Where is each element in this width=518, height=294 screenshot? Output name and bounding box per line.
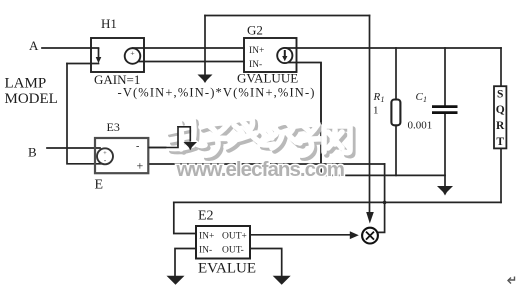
svg-text:T: T <box>496 136 504 148</box>
ground triangle at E2 OUT- <box>273 276 291 285</box>
svg-text:IN-: IN- <box>199 246 212 256</box>
wire thermal bottom line <box>321 174 445 176</box>
wire H1 sense out to left column <box>67 63 99 65</box>
wire B to E3 <box>47 147 100 149</box>
wire G2 out- to thermal node <box>285 63 321 176</box>
wire E2 OUT+ to multiplier <box>250 234 350 236</box>
wire left column down to E3 minus pin <box>67 64 101 164</box>
capacitor C1 <box>432 105 458 108</box>
svg-text:+: + <box>137 159 144 173</box>
op block H1 <box>91 38 144 72</box>
svg-text:LAMP: LAMP <box>5 76 47 92</box>
wire R1 top lead <box>395 48 397 100</box>
wire ground stub at x205 <box>204 16 206 75</box>
svg-text:B: B <box>28 145 37 160</box>
svg-text:E3: E3 <box>107 120 120 134</box>
op block G2 <box>244 38 297 72</box>
svg-text:E: E <box>95 178 104 193</box>
svg-text:IN-: IN- <box>249 60 262 70</box>
svg-text:-: - <box>136 141 139 152</box>
wire E2 OUT- to ground <box>250 249 282 276</box>
svg-text:IN+: IN+ <box>249 46 264 56</box>
svg-text:S: S <box>497 89 503 101</box>
svg-text:OUT+: OUT+ <box>222 232 247 242</box>
svg-text:R: R <box>496 120 505 132</box>
op block E2 <box>196 226 250 259</box>
wire rail down to multiplier <box>369 16 371 213</box>
svg-text:0.001: 0.001 <box>408 120 433 132</box>
multiplier <box>366 212 374 224</box>
svg-text:E2: E2 <box>198 209 214 224</box>
svg-text:A: A <box>29 38 39 53</box>
wire G2 output bus to SQRT <box>285 47 501 49</box>
wire multiplier output up to E3 plus line <box>378 164 384 232</box>
wire SQRT output long run <box>174 201 501 203</box>
svg-text:1: 1 <box>381 95 385 104</box>
G2 source circle <box>277 48 292 63</box>
wire E2 IN- to ground <box>175 249 196 276</box>
svg-text:+: + <box>130 49 134 58</box>
ground triangle at E2 IN- <box>167 276 185 285</box>
return mark <box>508 277 515 284</box>
E3 source circle <box>97 148 113 164</box>
ground arrow at E3 minus <box>184 142 198 150</box>
svg-text:GVALUUE: GVALUUE <box>237 71 298 86</box>
node junction dot <box>383 201 387 205</box>
ground arrow at sense bus <box>198 75 213 84</box>
wire SQRT top lead <box>500 48 502 86</box>
wire H1 out- to G2 IN- <box>133 61 245 63</box>
wire E3 plus line <box>148 163 384 165</box>
ground arrow at C1 <box>437 186 453 196</box>
wire long run down to E2 IN+ <box>174 202 196 233</box>
svg-text:MODEL: MODEL <box>5 91 58 107</box>
svg-text:-V(%IN+,%IN-)*V(%IN+,%IN-): -V(%IN+,%IN-)*V(%IN+,%IN-) <box>118 86 316 100</box>
wire C1 top lead <box>444 48 446 106</box>
H1 sense arrow <box>98 48 100 58</box>
wire R1 bottom lead <box>395 125 397 175</box>
svg-text:Q: Q <box>496 104 505 116</box>
svg-text:H1: H1 <box>101 16 117 31</box>
op block E3 <box>95 138 148 173</box>
wire SQRT bottom lead <box>500 148 502 202</box>
wire top rail <box>205 15 370 17</box>
svg-text:G2: G2 <box>247 23 263 38</box>
wire E3 minus out to ground arrow <box>148 127 190 148</box>
resistor R1 <box>391 100 400 126</box>
svg-text:1: 1 <box>423 95 427 104</box>
ground arrow at E3 minus (redrawn above watermark) <box>148 127 190 148</box>
sqrt block <box>494 86 506 148</box>
svg-text:R: R <box>373 91 381 103</box>
wire node A to H1 sense in <box>42 47 99 49</box>
svg-text:EVALUE: EVALUE <box>198 261 256 277</box>
svg-text:OUT-: OUT- <box>222 246 244 256</box>
svg-text:IN+: IN+ <box>199 232 214 242</box>
svg-text:1: 1 <box>373 105 379 117</box>
wire H1 out to G2 IN+ bus <box>133 47 245 49</box>
wire C1 bottom lead <box>444 114 446 187</box>
wire thermal vertical redraw segments <box>320 62 322 175</box>
svg-text:www.elecfans.com: www.elecfans.com <box>176 158 344 181</box>
H1 source circle <box>125 48 141 64</box>
